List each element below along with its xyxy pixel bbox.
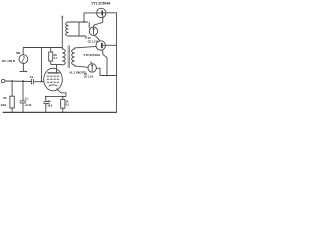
svg-text:ОС 1,2 В: ОС 1,2 В <box>84 76 94 79</box>
capacitor C1 plates <box>20 100 27 102</box>
svg-text:ОС 150 В: ОС 150 В <box>2 59 16 63</box>
transformer T2 core <box>68 46 69 69</box>
svg-text:Сэ: Сэ <box>25 97 29 100</box>
junction dot node at 84,22 <box>83 21 85 23</box>
svg-text:V2: V2 <box>88 36 92 40</box>
wire T2 secondary top to VT2 base <box>75 46 97 49</box>
svg-text:Rб: Rб <box>3 97 7 100</box>
tube VL1 envelope <box>44 68 63 91</box>
label VT2 2C504A <box>83 53 101 57</box>
wire T1 right side <box>78 22 80 36</box>
capacitor C2 plates <box>43 101 49 103</box>
wire VT2 collector to right rail <box>103 44 117 46</box>
svg-text:VT1 2С504А: VT1 2С504А <box>91 2 111 6</box>
wire VT1 base from node at (84,22) <box>84 13 101 22</box>
label C2 <box>48 100 52 103</box>
stray mark <box>25 71 27 73</box>
wire VT1 collector to right rail <box>103 12 117 14</box>
wire T1 bottom lead <box>69 35 87 37</box>
junction dot <box>106 75 108 77</box>
label R3 value <box>66 101 69 104</box>
meter V2 <box>89 27 97 35</box>
wire top rail <box>23 47 62 49</box>
capacitor C4 plates <box>30 79 32 84</box>
junction dot cathode/C2 <box>45 96 47 98</box>
input jack X1 <box>2 79 5 82</box>
wire T1 top to V2 left <box>88 22 90 28</box>
junction dot grid node <box>41 81 43 83</box>
label VT1 2C504A <box>91 2 111 6</box>
svg-text:VL1 2Ж27Б: VL1 2Ж27Б <box>69 71 86 75</box>
wire right supply rail <box>116 13 118 113</box>
wire VT1 emitter to V2 <box>94 15 103 27</box>
svg-text:ВМ: ВМ <box>16 52 20 55</box>
transistor VT2 <box>96 41 105 50</box>
junction dot input/C1 <box>22 80 24 82</box>
wire C1 to ground rail <box>22 103 24 112</box>
capacitor C2 lead <box>45 97 47 102</box>
label V3 <box>84 73 88 76</box>
label C2 value <box>48 105 53 108</box>
antenna wire with arrow <box>61 18 63 50</box>
wire microphone bottom lead <box>22 64 24 72</box>
tube anode plate <box>48 72 60 74</box>
label C4 <box>30 76 34 79</box>
transformer T2 right winding <box>72 49 75 65</box>
resistor R2 body <box>49 52 53 61</box>
svg-text:Св: Св <box>30 76 34 79</box>
wire ground rail <box>3 111 117 113</box>
capacitor C1 lead <box>22 81 24 101</box>
transformer T2 left winding <box>62 49 65 65</box>
wire anode row <box>51 64 63 66</box>
label OC 1,2 V (V3) <box>84 76 94 79</box>
wire anode stub into tube <box>56 65 58 73</box>
label R2 <box>54 54 58 57</box>
svg-text:4,7: 4,7 <box>54 57 58 60</box>
wire T1 top lead <box>69 21 89 23</box>
wire from rail down to grid node <box>41 48 43 82</box>
wire T2 secondary bottom to V3 <box>75 65 88 67</box>
wire R3 to ground rail <box>62 108 64 112</box>
resistor R2 vertical wire <box>50 48 52 65</box>
label C1 value <box>24 104 32 107</box>
svg-text:240к: 240к <box>1 104 7 107</box>
wire V3 right to bottom node <box>96 68 100 75</box>
resistor R1 lead <box>11 81 13 96</box>
tube cathode <box>49 85 58 86</box>
wire bottom right node row <box>100 75 117 77</box>
wire stub at 86 <box>85 36 87 39</box>
wire VT2 emitter down <box>103 50 107 75</box>
svg-text:0,2: 0,2 <box>66 104 70 107</box>
wire cathode exit <box>57 89 67 97</box>
label R1 value <box>1 104 7 107</box>
wire R1 to ground rail <box>11 108 13 112</box>
junction dot input/R1 <box>11 80 13 82</box>
label C1 <box>25 97 29 100</box>
label R2 value <box>54 57 58 60</box>
arrow tip <box>62 16 64 18</box>
transformer T1 winding <box>66 22 69 36</box>
svg-text:50,0: 50,0 <box>48 105 53 108</box>
svg-text:Ск: Ск <box>48 100 52 103</box>
label R3 value2 <box>66 104 70 107</box>
svg-text:VT2 2С504А: VT2 2С504А <box>83 53 101 57</box>
resistor R1 body <box>10 96 14 108</box>
label R1 <box>3 97 7 100</box>
svg-text:+1×10: +1×10 <box>24 104 32 107</box>
label BM <box>16 52 20 55</box>
label OC 150 V <box>2 59 16 63</box>
tube grid dashes <box>47 76 59 82</box>
microphone M1 <box>19 55 28 64</box>
resistor R3 lead <box>62 97 64 100</box>
meter V3 <box>88 61 96 72</box>
wire C4 to grid <box>33 81 44 83</box>
wire input row <box>5 80 32 83</box>
transistor VT1 <box>97 8 106 17</box>
wire C2 to ground rail <box>45 104 47 113</box>
label OC 1,2 V <box>88 40 99 44</box>
junction dot cathode/R3 <box>62 96 64 98</box>
resistor R3 body <box>61 99 65 108</box>
label VL1 <box>69 71 86 75</box>
label V2 <box>88 36 92 40</box>
wire V2 to VT2 <box>95 35 101 41</box>
chassis bar <box>20 71 28 73</box>
wire cathode network row <box>45 96 66 98</box>
microphone M1 top stub <box>22 48 24 55</box>
